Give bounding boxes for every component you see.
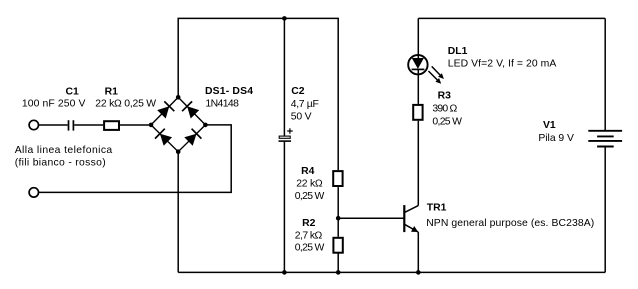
svg-text:22 kΩ 0,25 W: 22 kΩ 0,25 W: [95, 98, 156, 109]
diode DS1 (left node to top node): [157, 101, 174, 118]
diode DS2 (right node to top node): [182, 101, 199, 118]
resistor R4: [333, 171, 342, 186]
svg-text:50 V: 50 V: [291, 111, 312, 122]
svg-text:DS1- DS4: DS1- DS4: [205, 86, 253, 97]
diode bridge DS1-DS4: [149, 95, 208, 154]
wire top rail right circuit: [418, 17, 605, 19]
svg-text:R1: R1: [105, 87, 119, 98]
svg-text:1N4148: 1N4148: [205, 99, 239, 110]
wire C1 to R1: [74, 124, 103, 126]
wire bottom rail: [178, 271, 605, 273]
wire battery bottom lead: [604, 147, 606, 273]
terminal J1 upper phone terminal: [29, 120, 38, 129]
svg-text:100 nF 250 V: 100 nF 250 V: [22, 98, 86, 109]
svg-text:Alla linea telefonica: Alla linea telefonica: [15, 145, 113, 156]
resistor R3: [413, 105, 422, 120]
TR1 emitter arrowhead: [411, 226, 418, 232]
wire R2 bottom segment: [337, 254, 339, 273]
wire battery top lead: [604, 18, 606, 130]
svg-text:2,7 kΩ: 2,7 kΩ: [295, 231, 323, 242]
node bottom rail C2: [282, 270, 287, 275]
svg-text:22 kΩ: 22 kΩ: [296, 178, 323, 189]
wire C2 branch lower: [283, 141, 285, 272]
node base junction: [336, 216, 341, 221]
svg-text:0,25 W: 0,25 W: [295, 243, 325, 254]
node bottom rail emitter: [416, 270, 421, 275]
svg-text:0,25 W: 0,25 W: [432, 117, 462, 128]
terminal J2 lower phone terminal: [29, 188, 38, 197]
wire emitter to bottom rail: [417, 232, 419, 272]
node bottom rail R2: [336, 270, 341, 275]
wire R4-R2 middle segment: [337, 187, 339, 237]
TR1 emitter stroke: [404, 224, 418, 232]
wire J2 to bridge right node: [39, 125, 232, 192]
transistor TR1: [404, 205, 418, 232]
svg-text:R3: R3: [438, 91, 452, 102]
svg-text:4,7 µF: 4,7 µF: [291, 99, 319, 110]
wire C2 branch upper: [283, 18, 285, 135]
wire bridge diamond: [151, 97, 205, 151]
wire R3 to collector: [417, 121, 419, 206]
wire bridge bottom lead: [177, 152, 179, 273]
svg-text:V1: V1: [543, 120, 556, 131]
TR1 collector stroke: [404, 206, 418, 213]
svg-text:DL1: DL1: [448, 46, 468, 57]
svg-text:TR1: TR1: [427, 203, 447, 214]
svg-text:R2: R2: [302, 218, 316, 229]
capacitor C2 electrolytic: [279, 128, 293, 141]
LED light arrow 2: [428, 71, 438, 81]
wire top rail left circuit: [178, 18, 338, 170]
resistor R1: [104, 121, 119, 130]
svg-text:0,25 W: 0,25 W: [295, 191, 325, 202]
capacitor C1: [69, 120, 74, 130]
svg-text:LED Vf=2 V, If = 20 mA: LED Vf=2 V, If = 20 mA: [448, 59, 557, 70]
node bridge bottom: [176, 149, 181, 154]
LED DL1: [408, 55, 444, 84]
svg-text:390 Ω: 390 Ω: [432, 104, 457, 115]
wire LED branch: [417, 18, 419, 104]
wire TR1 base: [338, 217, 404, 219]
resistor R2: [333, 238, 342, 253]
diode DS3 (bottom node to left node): [155, 129, 172, 146]
node top rail C2 junction: [282, 16, 287, 21]
wire J1 to C1: [39, 124, 68, 126]
svg-text:(fili bianco - rosso): (fili bianco - rosso): [15, 158, 106, 169]
svg-text:Pila 9 V: Pila 9 V: [538, 133, 574, 144]
LED light arrow 1: [432, 66, 442, 76]
TR1 base bar: [403, 205, 405, 232]
wire R1 to bridge left node: [120, 124, 151, 126]
node bridge left: [149, 123, 154, 128]
svg-text:NPN general purpose (es. BC238: NPN general purpose (es. BC238A): [426, 218, 594, 229]
node bridge top: [176, 95, 181, 100]
svg-text:C1: C1: [66, 87, 80, 98]
diode DS4 (bottom node to right node): [184, 129, 201, 146]
svg-text:C2: C2: [291, 86, 305, 97]
svg-text:R4: R4: [301, 166, 315, 177]
battery V1: [588, 131, 622, 147]
node bridge right: [203, 123, 208, 128]
